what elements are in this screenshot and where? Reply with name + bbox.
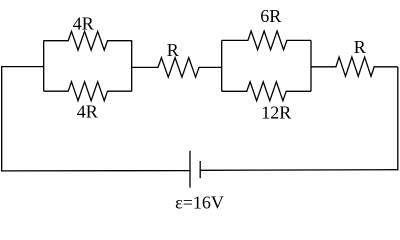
wire: left lead into parallel block <box>2 66 44 68</box>
label 6R <box>260 6 281 26</box>
node B: left parallel box right edge <box>131 40 133 91</box>
node A: left parallel box left edge <box>43 40 45 91</box>
resistor R4 6R (top of right parallel pair) <box>222 31 311 50</box>
node C: right parallel box left edge <box>221 40 223 91</box>
battery B1 positive plate (long) <box>189 151 191 188</box>
resistor R1 4R (top of left parallel pair) <box>44 31 132 50</box>
svg-text:6R: 6R <box>260 6 281 26</box>
resistor R5 12R (bottom of right parallel pair) <box>222 82 311 101</box>
label epsilon=16V <box>175 193 224 213</box>
svg-text:4R: 4R <box>77 101 98 121</box>
node D: right parallel box right edge <box>310 40 312 91</box>
label 4R (bottom) <box>77 101 98 121</box>
svg-text:R: R <box>167 40 179 60</box>
wire: right vertical <box>397 67 399 171</box>
resistor R6 R (right series) <box>311 57 398 76</box>
battery B1 negative plate (short) <box>199 161 201 178</box>
svg-text:ε=16V: ε=16V <box>175 193 224 213</box>
label R (middle) <box>167 40 179 60</box>
wire: bottom rail right of battery <box>200 169 398 172</box>
label 4R (top) <box>73 13 94 33</box>
svg-text:R: R <box>354 37 366 57</box>
resistor R2 4R (bottom of left parallel pair) <box>44 82 132 101</box>
label R (right) <box>354 37 366 57</box>
resistor R3 R (middle series) <box>132 58 222 78</box>
label 12R <box>261 103 291 123</box>
wire: bottom rail left of battery <box>1 170 190 172</box>
wire: left vertical <box>1 66 3 172</box>
svg-text:4R: 4R <box>73 13 94 33</box>
svg-text:12R: 12R <box>261 103 291 123</box>
